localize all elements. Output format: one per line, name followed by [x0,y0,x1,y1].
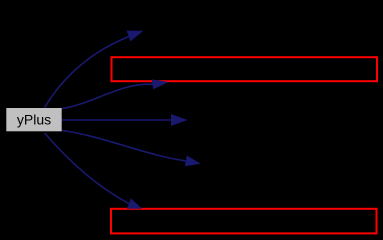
arrowhead edge 3 [171,114,188,126]
edge 3: yPlus to middle hidden node (wire) [62,119,171,121]
node yPlus (grey current node) [6,108,61,131]
svg-text:yPlus: yPlus [17,112,51,128]
arrowhead edge 4 [185,156,201,167]
arrowhead edge 2 [152,79,169,89]
arrowhead edge 1 [127,31,144,42]
edge 2: yPlus to top red box (wire) [62,84,153,108]
edge 5: yPlus to bottom red box (wire) [45,133,129,204]
edge 4: yPlus to lower hidden node (wire) [62,131,186,161]
arrowhead edge 5 [127,198,142,208]
edge 1: yPlus to top hidden node (wire) [45,37,129,108]
node: truncated red box bottom (lower callee) [111,209,377,234]
node: truncated red box top (upper callee) [112,57,378,81]
